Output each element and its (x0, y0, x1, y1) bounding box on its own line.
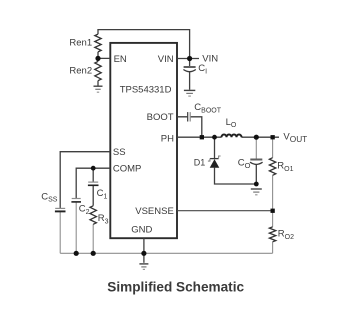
svg-text:TPS54331D: TPS54331D (120, 85, 172, 96)
svg-text:SS: SS (113, 147, 126, 158)
svg-text:VIN: VIN (158, 54, 174, 65)
svg-text:VSENSE: VSENSE (135, 206, 174, 217)
svg-text:EN: EN (114, 54, 127, 65)
svg-text:GND: GND (131, 224, 152, 235)
svg-text:Simplified Schematic: Simplified Schematic (107, 279, 244, 294)
svg-text:PH: PH (161, 133, 174, 144)
svg-text:BOOT: BOOT (147, 112, 174, 123)
svg-text:D1: D1 (194, 158, 206, 168)
svg-text:VOUT: VOUT (283, 131, 307, 144)
svg-text:Ren2: Ren2 (69, 65, 92, 76)
svg-text:COMP: COMP (113, 164, 141, 175)
svg-text:Ren1: Ren1 (69, 37, 92, 48)
